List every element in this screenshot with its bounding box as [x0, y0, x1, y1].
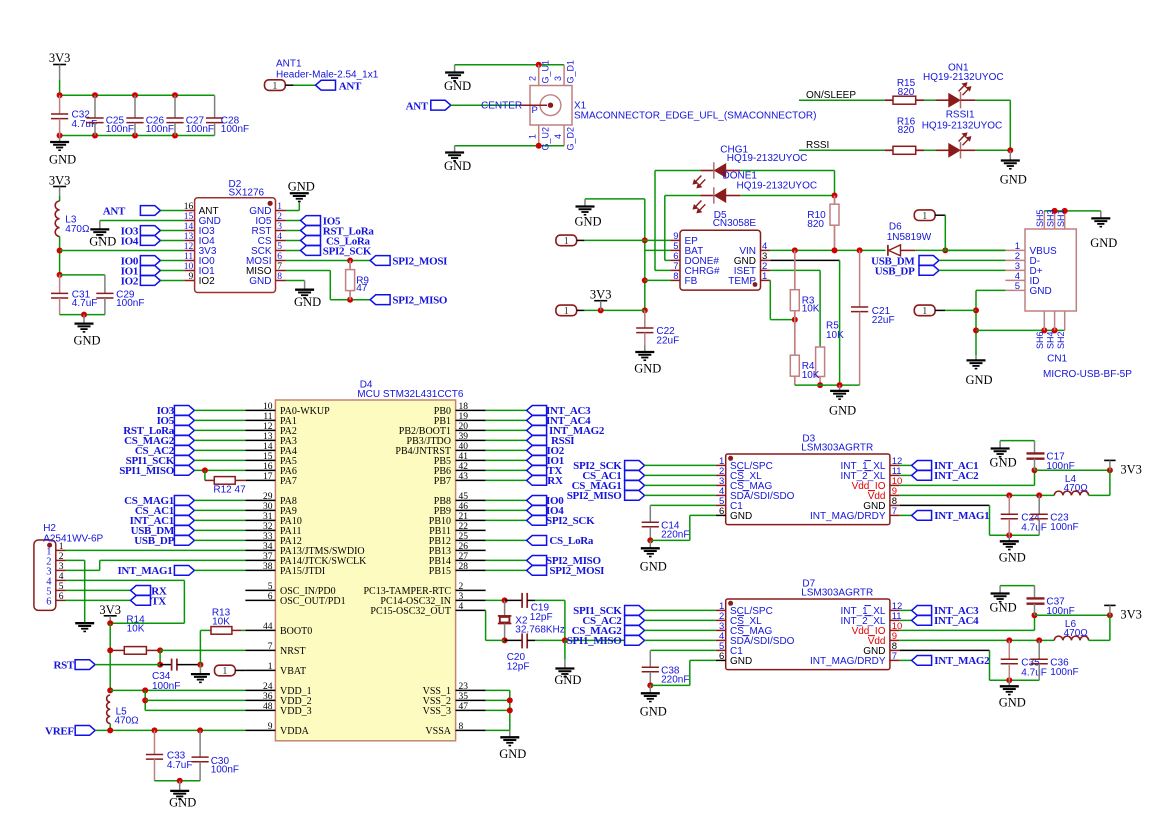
svg-text:7: 7 [277, 262, 282, 272]
svg-text:6: 6 [59, 592, 64, 602]
svg-text:BOOT0: BOOT0 [280, 626, 312, 637]
svg-text:19: 19 [459, 412, 469, 422]
svg-text:39: 39 [459, 432, 469, 442]
svg-text:1: 1 [222, 666, 227, 677]
svg-text:3V3: 3V3 [49, 51, 71, 65]
svg-text:1: 1 [528, 134, 538, 139]
svg-text:VDD_3: VDD_3 [280, 706, 312, 717]
svg-text:220nF: 220nF [661, 675, 689, 686]
svg-text:3V3: 3V3 [49, 174, 71, 188]
svg-text:36: 36 [263, 692, 273, 702]
svg-text:1: 1 [277, 202, 282, 212]
svg-text:5: 5 [1015, 281, 1020, 292]
svg-text:100nF: 100nF [1050, 522, 1078, 533]
svg-text:4: 4 [277, 232, 282, 242]
svg-text:1: 1 [762, 271, 767, 282]
svg-text:13: 13 [184, 232, 194, 242]
svg-text:INT_MAG/DRDY: INT_MAG/DRDY [810, 511, 886, 522]
svg-text:14: 14 [263, 442, 273, 452]
svg-text:GND: GND [999, 696, 1026, 710]
svg-text:G_U2: G_U2 [541, 127, 551, 151]
svg-text:GND: GND [1030, 286, 1052, 297]
svg-text:LSM303AGRTR: LSM303AGRTR [801, 443, 873, 454]
svg-text:3: 3 [277, 222, 282, 232]
svg-text:LSM303AGRTR: LSM303AGRTR [801, 588, 873, 599]
svg-text:25: 25 [459, 532, 469, 542]
svg-text:SH4: SH4 [1046, 331, 1056, 349]
svg-text:CS_LoRa: CS_LoRa [549, 535, 594, 547]
svg-text:PA7: PA7 [280, 476, 297, 487]
svg-text:5: 5 [277, 242, 282, 252]
svg-text:37: 37 [263, 552, 273, 562]
svg-text:SPI2_MOSI: SPI2_MOSI [392, 255, 447, 267]
svg-text:GND: GND [444, 159, 471, 173]
svg-text:INT_MAG2: INT_MAG2 [934, 655, 990, 667]
svg-text:RSSI1: RSSI1 [946, 110, 975, 121]
svg-text:INT_AC2: INT_AC2 [934, 470, 979, 482]
svg-text:Header-Male-2.54_1x1: Header-Male-2.54_1x1 [276, 70, 379, 81]
svg-text:47: 47 [459, 702, 469, 712]
svg-text:CENTER: CENTER [481, 101, 522, 112]
svg-text:6: 6 [268, 592, 273, 602]
svg-text:SH2: SH2 [1056, 331, 1066, 349]
svg-text:4.7uF: 4.7uF [167, 760, 193, 771]
svg-text:6: 6 [719, 506, 724, 517]
svg-text:12pF: 12pF [507, 662, 530, 673]
svg-text:9: 9 [268, 722, 273, 732]
svg-text:100nF: 100nF [211, 765, 239, 776]
svg-text:GND: GND [249, 276, 271, 287]
svg-text:PA15/JTDI: PA15/JTDI [280, 566, 325, 577]
svg-text:P: P [532, 105, 538, 116]
svg-text:RSSI: RSSI [806, 140, 829, 151]
svg-text:10K: 10K [802, 304, 820, 315]
svg-text:4.7uF: 4.7uF [1021, 523, 1047, 534]
svg-text:ANT: ANT [339, 80, 362, 92]
svg-text:48: 48 [263, 702, 273, 712]
svg-text:24: 24 [263, 682, 273, 692]
svg-text:100nF: 100nF [221, 124, 249, 135]
svg-text:ANT1: ANT1 [276, 59, 302, 70]
svg-text:12pF: 12pF [530, 612, 553, 623]
svg-text:G_D1: G_D1 [566, 60, 576, 84]
svg-text:17: 17 [263, 472, 273, 482]
svg-text:40: 40 [459, 442, 469, 452]
svg-text:INT_MAG/DRDY: INT_MAG/DRDY [810, 656, 886, 667]
svg-text:100nF: 100nF [1050, 667, 1078, 678]
svg-text:HQ19-2132UYOC: HQ19-2132UYOC [727, 153, 808, 164]
svg-text:10K: 10K [802, 370, 820, 381]
svg-text:ANT: ANT [103, 206, 126, 218]
svg-text:SPI1_MISO: SPI1_MISO [567, 635, 622, 647]
svg-text:ANT: ANT [406, 100, 429, 112]
svg-text:SPI2_MOSI: SPI2_MOSI [549, 565, 604, 577]
svg-text:3V3: 3V3 [1120, 608, 1142, 622]
svg-text:INT_AC4: INT_AC4 [934, 615, 979, 627]
svg-text:D6: D6 [889, 222, 902, 233]
svg-text:GND: GND [1000, 173, 1027, 187]
svg-text:100nF: 100nF [116, 298, 144, 309]
svg-text:6: 6 [719, 651, 724, 662]
svg-text:SPI2_MISO: SPI2_MISO [392, 295, 447, 307]
svg-text:35: 35 [459, 692, 469, 702]
svg-text:9: 9 [188, 272, 193, 282]
svg-text:4: 4 [553, 134, 563, 139]
svg-text:20: 20 [459, 422, 469, 432]
svg-text:GND: GND [999, 551, 1026, 565]
svg-text:3: 3 [459, 592, 464, 602]
svg-text:3V3: 3V3 [1120, 463, 1142, 477]
svg-text:R12 47: R12 47 [213, 485, 246, 496]
svg-text:GND: GND [444, 79, 471, 93]
svg-text:10K: 10K [826, 330, 844, 341]
svg-text:10: 10 [184, 262, 194, 272]
svg-text:SPI2_SCK: SPI2_SCK [546, 515, 595, 527]
svg-text:HQ19-2132UYOC: HQ19-2132UYOC [922, 121, 1003, 132]
svg-text:TX: TX [151, 595, 166, 607]
svg-text:100nF: 100nF [186, 124, 214, 135]
svg-text:100nF: 100nF [106, 124, 134, 135]
svg-text:INT_MAG1: INT_MAG1 [117, 565, 172, 577]
svg-text:33: 33 [263, 532, 273, 542]
svg-text:PB7: PB7 [434, 476, 451, 487]
svg-text:4.7uF: 4.7uF [72, 119, 98, 130]
svg-text:7: 7 [892, 651, 897, 662]
svg-text:HQ19-2132UYOC: HQ19-2132UYOC [737, 181, 818, 192]
svg-text:2: 2 [59, 552, 64, 562]
svg-text:15: 15 [184, 212, 194, 222]
svg-text:220nF: 220nF [661, 530, 689, 541]
svg-text:8: 8 [277, 272, 282, 282]
svg-text:16: 16 [184, 202, 194, 212]
svg-text:HQ19-2132UYOC: HQ19-2132UYOC [923, 72, 1004, 83]
svg-text:3V3: 3V3 [590, 288, 612, 302]
svg-text:RST: RST [54, 659, 75, 671]
svg-text:GND: GND [1090, 236, 1117, 250]
svg-text:29: 29 [263, 492, 273, 502]
svg-text:43: 43 [459, 472, 469, 482]
svg-text:GND: GND [990, 601, 1017, 615]
svg-text:OSC_OUT/PD1: OSC_OUT/PD1 [280, 596, 346, 607]
svg-text:41: 41 [459, 452, 469, 462]
svg-text:44: 44 [263, 622, 273, 632]
svg-text:MICRO-USB-BF-5P: MICRO-USB-BF-5P [1043, 369, 1132, 380]
svg-text:10K: 10K [212, 616, 230, 627]
svg-text:GND: GND [965, 373, 992, 387]
svg-text:3: 3 [553, 76, 563, 81]
svg-text:SH1: SH1 [1056, 209, 1066, 227]
svg-text:1: 1 [922, 211, 927, 222]
svg-text:NRST: NRST [280, 646, 306, 657]
svg-text:GND: GND [990, 456, 1017, 470]
svg-text:GND: GND [574, 215, 601, 229]
svg-text:CN3058E: CN3058E [713, 218, 757, 229]
svg-text:820: 820 [898, 125, 915, 136]
svg-text:22uF: 22uF [872, 315, 895, 326]
svg-text:2: 2 [528, 76, 538, 81]
svg-text:31: 31 [263, 512, 273, 522]
svg-text:SPI2_MISO: SPI2_MISO [567, 490, 622, 502]
svg-text:32: 32 [263, 522, 273, 532]
svg-text:14: 14 [184, 222, 194, 232]
svg-text:IO4: IO4 [121, 235, 139, 247]
svg-text:VREF: VREF [45, 725, 74, 737]
svg-text:4.7uF: 4.7uF [1021, 668, 1047, 679]
svg-text:IO2: IO2 [121, 275, 139, 287]
svg-text:8: 8 [673, 271, 678, 282]
svg-text:GND: GND [554, 673, 581, 687]
svg-text:46: 46 [459, 502, 469, 512]
svg-text:7: 7 [268, 642, 273, 652]
svg-text:4: 4 [59, 572, 64, 582]
svg-text:8: 8 [459, 722, 464, 732]
svg-text:26: 26 [459, 542, 469, 552]
svg-text:IO2: IO2 [199, 276, 216, 287]
svg-text:G_U1: G_U1 [541, 60, 551, 84]
svg-text:1: 1 [922, 306, 927, 317]
svg-text:45: 45 [459, 492, 469, 502]
svg-text:18: 18 [459, 402, 469, 412]
svg-text:GND: GND [640, 560, 667, 574]
svg-text:GND: GND [169, 796, 196, 810]
svg-text:GND: GND [73, 334, 100, 348]
svg-text:22: 22 [459, 522, 469, 532]
svg-text:1: 1 [268, 662, 273, 672]
svg-text:15: 15 [263, 452, 273, 462]
svg-text:SPI1_MISO: SPI1_MISO [119, 465, 174, 477]
svg-text:4.7uF: 4.7uF [72, 298, 98, 309]
svg-text:2: 2 [277, 212, 282, 222]
svg-text:1: 1 [564, 306, 569, 317]
svg-text:GND: GND [499, 747, 526, 761]
svg-text:SH5: SH5 [1035, 209, 1045, 227]
svg-text:470Ω: 470Ω [1064, 628, 1089, 639]
svg-text:23: 23 [459, 682, 469, 692]
svg-text:VDDA: VDDA [280, 726, 310, 737]
svg-text:VBAT: VBAT [280, 666, 306, 677]
svg-text:11: 11 [184, 252, 193, 262]
svg-text:ON/SLEEP: ON/SLEEP [806, 90, 856, 101]
svg-text:GND: GND [640, 705, 667, 719]
svg-text:16: 16 [263, 462, 273, 472]
svg-text:28: 28 [459, 562, 469, 572]
svg-text:470Ω: 470Ω [1064, 483, 1089, 494]
svg-text:470Ω: 470Ω [115, 716, 140, 727]
svg-text:47: 47 [356, 283, 368, 294]
svg-text:1: 1 [564, 236, 569, 247]
svg-text:GND: GND [294, 295, 321, 309]
svg-text:1N5819W: 1N5819W [887, 232, 932, 243]
svg-text:12: 12 [263, 422, 273, 432]
svg-text:4: 4 [459, 602, 464, 612]
svg-text:3: 3 [59, 562, 64, 572]
svg-text:MCU STM32L431CCT6: MCU STM32L431CCT6 [357, 389, 464, 400]
svg-text:SMACONNECTOR_EDGE_UFL_(SMACONN: SMACONNECTOR_EDGE_UFL_(SMACONNECTOR) [574, 111, 816, 122]
svg-text:11: 11 [263, 412, 272, 422]
svg-text:1: 1 [272, 81, 277, 92]
svg-text:10K: 10K [127, 624, 145, 635]
svg-text:12: 12 [184, 242, 194, 252]
svg-text:13: 13 [263, 432, 273, 442]
svg-text:CN1: CN1 [1047, 354, 1067, 365]
svg-text:GND: GND [634, 362, 661, 376]
svg-text:G_D2: G_D2 [566, 127, 576, 151]
svg-text:GND: GND [829, 404, 856, 418]
svg-text:SH3: SH3 [1046, 209, 1056, 227]
svg-text:6: 6 [277, 252, 282, 262]
svg-text:USB_DP: USB_DP [875, 265, 915, 277]
svg-text:38: 38 [263, 562, 273, 572]
svg-text:1: 1 [59, 542, 64, 552]
svg-text:42: 42 [459, 462, 469, 472]
svg-text:3V3: 3V3 [99, 603, 121, 617]
svg-text:820: 820 [807, 219, 824, 230]
svg-text:INT_MAG1: INT_MAG1 [934, 510, 989, 522]
svg-text:GND: GND [49, 153, 76, 167]
svg-text:PB15: PB15 [429, 566, 451, 577]
svg-text:GND: GND [89, 234, 116, 248]
svg-text:GND: GND [730, 511, 752, 522]
svg-text:470Ω: 470Ω [65, 224, 90, 235]
svg-text:SX1276: SX1276 [229, 188, 265, 199]
svg-text:6: 6 [46, 596, 51, 607]
svg-text:PC15-OSC32_OUT: PC15-OSC32_OUT [370, 606, 451, 617]
svg-text:VSS_3: VSS_3 [423, 706, 451, 717]
svg-text:SPI2_SCK: SPI2_SCK [323, 245, 372, 257]
svg-text:27: 27 [459, 552, 469, 562]
svg-text:GND: GND [288, 180, 315, 194]
svg-text:SH6: SH6 [1035, 331, 1045, 349]
svg-text:TEMP: TEMP [728, 276, 756, 287]
svg-text:VSSA: VSSA [425, 726, 451, 737]
svg-text:7: 7 [892, 506, 897, 517]
svg-text:30: 30 [263, 502, 273, 512]
svg-text:820: 820 [898, 87, 915, 98]
svg-text:A2541WV-6P: A2541WV-6P [43, 533, 103, 544]
svg-text:RX: RX [547, 475, 563, 487]
svg-text:5: 5 [268, 582, 273, 592]
svg-text:10: 10 [263, 402, 273, 412]
svg-text:GND: GND [730, 656, 752, 667]
svg-text:2: 2 [459, 582, 464, 592]
svg-text:21: 21 [459, 512, 469, 522]
svg-text:34: 34 [263, 542, 273, 552]
svg-text:FB: FB [685, 276, 698, 287]
svg-text:100nF: 100nF [146, 124, 174, 135]
svg-text:USB_DP: USB_DP [134, 535, 174, 547]
svg-text:5: 5 [59, 582, 64, 592]
svg-text:22uF: 22uF [656, 336, 679, 347]
